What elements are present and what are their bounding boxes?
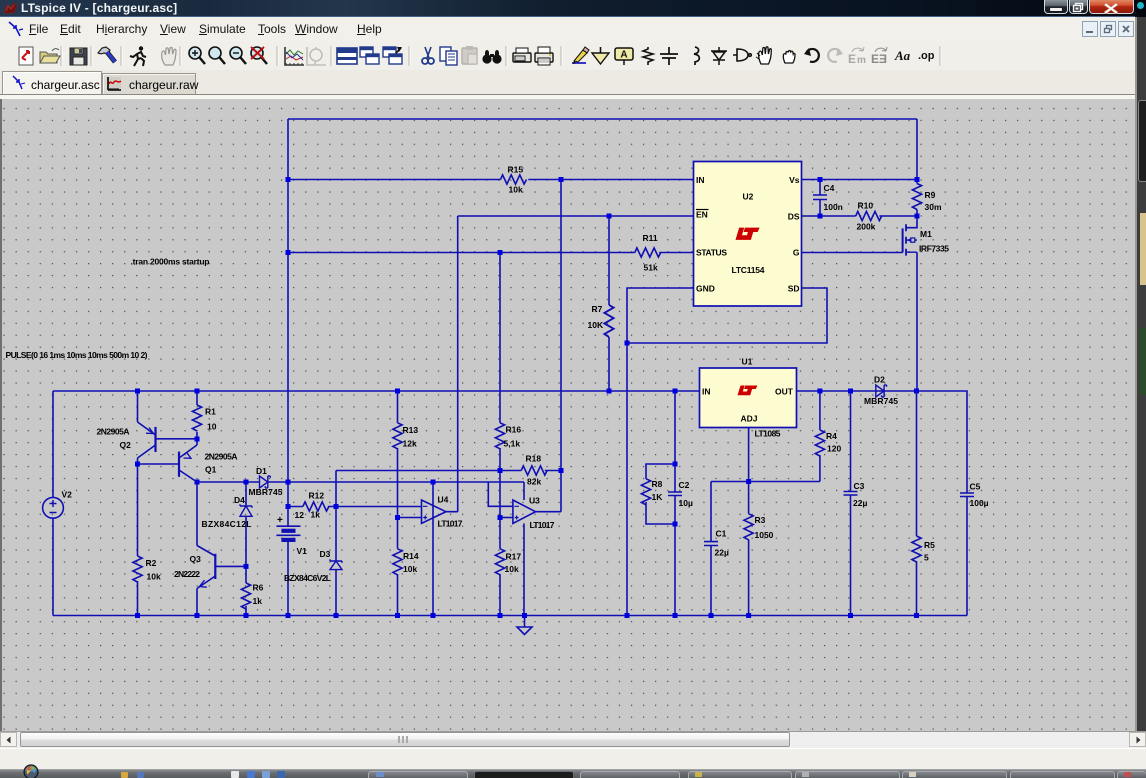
resistor icon xyxy=(643,47,653,65)
junction node EN-R7 xyxy=(607,214,612,219)
zoom extents xyxy=(251,47,267,64)
svg-text:Vs: Vs xyxy=(789,175,800,185)
transistor Q1 pnp xyxy=(178,452,180,477)
svg-text:IN: IN xyxy=(696,175,705,185)
capacitor icon xyxy=(660,47,678,65)
svg-text:E: E xyxy=(848,52,856,66)
wire ground stub xyxy=(524,616,526,627)
junction node rail R2 xyxy=(135,613,140,618)
junction node STATUS left xyxy=(286,250,291,255)
junction node rail R5 xyxy=(914,613,919,618)
junction node Vs-R9 xyxy=(915,177,920,182)
wire x=457.7 vertical U4 output xyxy=(446,216,458,512)
svg-text:LT1017: LT1017 xyxy=(530,520,555,530)
tile horizontal xyxy=(337,48,357,64)
svg-text:C5: C5 xyxy=(970,482,981,492)
junction node C4 bottom xyxy=(818,214,823,219)
svg-text:1k: 1k xyxy=(253,596,263,606)
junction node R18 right xyxy=(559,468,564,473)
svg-text:D1: D1 xyxy=(256,466,267,476)
svg-text:Aa: Aa xyxy=(894,48,911,63)
wire D4 column xyxy=(245,482,247,616)
svg-text:R6: R6 xyxy=(253,583,264,593)
svg-text:5: 5 xyxy=(924,553,929,563)
wire Q3 base row xyxy=(215,565,246,567)
print preview xyxy=(513,48,531,62)
svg-text:10k: 10k xyxy=(505,564,519,574)
label A icon xyxy=(615,48,633,65)
cut xyxy=(422,47,434,64)
resistor R16 xyxy=(495,423,504,449)
junction node rail x675 xyxy=(673,613,678,618)
svg-text:R8: R8 xyxy=(652,479,663,489)
wire R4 column xyxy=(819,391,821,482)
junction node R15 right xyxy=(559,177,564,182)
wire x=609 EN to R7 to mid rail xyxy=(608,216,610,391)
drag fist xyxy=(783,51,795,63)
wire Q2 emitter from mid rail xyxy=(137,391,139,422)
junction node rail R14 xyxy=(395,613,400,618)
junction node rail C1 xyxy=(709,613,714,618)
junction node OUT C3 xyxy=(848,389,853,394)
svg-text:10: 10 xyxy=(207,422,217,432)
text Aa xyxy=(894,48,911,63)
move hand xyxy=(756,47,771,64)
svg-text:R16: R16 xyxy=(506,425,522,435)
capacitor C3 xyxy=(844,492,858,496)
resistor R13 xyxy=(393,423,402,449)
open folder xyxy=(40,49,60,63)
junction node mid rail Q2 xyxy=(135,389,140,394)
junction node Q3 base D4 xyxy=(244,564,249,569)
wire R1 leads xyxy=(196,391,198,439)
capacitor C4 xyxy=(813,195,827,200)
junction node Q2 base R1 xyxy=(195,437,200,442)
wire U4 plus row xyxy=(398,517,422,519)
wire M1 drain xyxy=(906,216,917,228)
junction node R10-M1 drain xyxy=(915,214,920,219)
junction node top-left rail xyxy=(286,177,291,182)
svg-text:2N2905A: 2N2905A xyxy=(97,427,130,437)
svg-text:100n: 100n xyxy=(824,202,843,212)
svg-text:Q2: Q2 xyxy=(120,440,132,450)
menu bar xyxy=(0,17,1135,43)
svg-text:DS: DS xyxy=(788,212,800,222)
wire x=500 column xyxy=(499,253,501,616)
svg-text:R2: R2 xyxy=(146,558,157,568)
resistor R6 xyxy=(241,583,250,609)
wire D1 row y=386 xyxy=(197,482,524,500)
svg-text:ADJ: ADJ xyxy=(741,414,758,424)
wire C3 column xyxy=(850,391,852,616)
junction node C4 top xyxy=(818,177,823,182)
wire x=397.5 column R13 R14 xyxy=(397,391,399,616)
junction node mid rail R1 xyxy=(195,389,200,394)
zener D3 xyxy=(330,559,342,569)
wire R5 column xyxy=(916,391,918,616)
ground symbol xyxy=(517,627,532,635)
zener D4 xyxy=(240,504,252,516)
IC U2 LTC1154 box xyxy=(694,162,802,307)
svg-text:82k: 82k xyxy=(527,477,541,487)
toolbar xyxy=(0,42,1135,71)
svg-text:5,1k: 5,1k xyxy=(504,439,521,449)
svg-text:A: A xyxy=(620,50,627,61)
wire OUT row xyxy=(797,391,968,616)
wire x=675 column xyxy=(674,391,676,616)
wire bottom rail xyxy=(53,615,967,617)
undo xyxy=(804,48,819,62)
svg-text:R9: R9 xyxy=(925,190,936,200)
svg-text:BZX84C12L: BZX84C12L xyxy=(202,519,252,529)
svg-text:C2: C2 xyxy=(679,480,690,490)
wire R18 row y=374.5 xyxy=(336,470,561,472)
svg-text:30m: 30m xyxy=(925,202,942,212)
svg-text:12k: 12k xyxy=(403,439,417,449)
svg-text:R3: R3 xyxy=(755,515,766,525)
wire R8 bracket xyxy=(646,464,675,524)
resistor R12 xyxy=(303,502,329,511)
svg-text:PULSE(0 16 1ms 10ms 10ms 500m: PULSE(0 16 1ms 10ms 10ms 500m 10 2) xyxy=(6,350,148,360)
wire V2 column xyxy=(52,391,54,616)
svg-text:Q3: Q3 xyxy=(190,554,202,564)
svg-text:E: E xyxy=(879,52,887,66)
svg-text:U2: U2 xyxy=(743,192,754,202)
svg-text:E: E xyxy=(871,52,879,66)
wire feedback row y=385.5 xyxy=(711,481,820,483)
svg-text:U3: U3 xyxy=(529,496,540,506)
svg-text:U1: U1 xyxy=(742,357,753,367)
svg-text:MBR745: MBR745 xyxy=(249,487,283,497)
svg-text:BZX84C6V2L: BZX84C6V2L xyxy=(284,573,331,583)
svg-text:R18: R18 xyxy=(526,454,542,464)
svg-text:10k: 10k xyxy=(403,564,417,574)
resistor R10 xyxy=(856,211,882,220)
svg-text:R10: R10 xyxy=(858,201,874,211)
junction node R12 left xyxy=(286,504,291,509)
component gate icon xyxy=(733,49,752,61)
transistor Q2 pnp xyxy=(154,427,156,452)
wire C1 column xyxy=(710,482,712,616)
junction node rail D3 xyxy=(334,613,339,618)
svg-text:10K: 10K xyxy=(588,320,604,330)
mirror Em gray xyxy=(848,47,866,66)
wire U3 Vminus to rail xyxy=(523,523,525,615)
svg-text:R13: R13 xyxy=(403,425,419,435)
svg-text:Q1: Q1 xyxy=(205,465,217,475)
battery V1 xyxy=(276,526,300,535)
junction node rail Q3 xyxy=(195,613,200,618)
svg-text:U4: U4 xyxy=(438,495,449,505)
svg-text:SD: SD xyxy=(788,284,800,294)
wire STATUS row with R11 leads xyxy=(288,252,694,254)
svg-text:LT1017: LT1017 xyxy=(438,519,463,529)
svg-text:12: 12 xyxy=(295,510,305,520)
svg-text:IN: IN xyxy=(702,387,711,397)
junction node rail x627 xyxy=(625,613,630,618)
svg-text:EN: EN xyxy=(696,210,708,220)
junction node D4 top xyxy=(244,480,249,485)
junction node U4 Vplus xyxy=(431,480,436,485)
tile vertical xyxy=(360,47,379,64)
wire branch to U3 minus xyxy=(488,482,513,506)
svg-text:R5: R5 xyxy=(924,540,935,550)
junction node U3 plus xyxy=(498,515,503,520)
run man xyxy=(130,46,146,66)
resistor R14 xyxy=(393,549,402,575)
svg-text:STATUS: STATUS xyxy=(696,248,727,258)
svg-text:R12: R12 xyxy=(309,491,325,501)
wire C4 leads xyxy=(819,180,821,217)
svg-text:1050: 1050 xyxy=(755,530,774,540)
svg-text:10µ: 10µ xyxy=(679,498,693,508)
svg-text:OUT: OUT xyxy=(775,387,794,397)
svg-text:D3: D3 xyxy=(320,549,331,559)
wire x=917 top to R9 xyxy=(916,119,918,216)
wire x=288 battery bottom to rail xyxy=(287,541,289,616)
junction node mid rail R13 xyxy=(395,389,400,394)
resistor R17 xyxy=(495,549,504,575)
junction node Q1 emitter xyxy=(195,480,200,485)
resistor R18 xyxy=(521,466,547,475)
svg-text:R15: R15 xyxy=(508,165,524,175)
halt hand gray xyxy=(162,47,176,65)
svg-text:M1: M1 xyxy=(920,229,932,239)
wire Vs row xyxy=(802,179,918,181)
svg-text:.tran 2000ms startup: .tran 2000ms startup xyxy=(131,257,210,267)
junction node STATUS-R16 xyxy=(498,250,503,255)
wire R12 row xyxy=(288,506,336,508)
svg-text:D4: D4 xyxy=(234,495,245,505)
wire SD loop xyxy=(627,288,827,343)
wire mid rail xyxy=(53,390,700,392)
paste gray xyxy=(462,46,477,64)
wire M1 source down to OUT row xyxy=(916,252,918,391)
grayed plot settings xyxy=(307,47,326,65)
junction node R8 bottom xyxy=(673,522,678,527)
svg-text:V1: V1 xyxy=(297,546,308,556)
wire pencil xyxy=(572,47,589,64)
opamp U3 triangle xyxy=(513,500,536,523)
rotate E3 xyxy=(871,47,887,66)
wire Q1 pins column xyxy=(196,439,198,546)
save floppy xyxy=(70,48,87,65)
svg-text:2N2222: 2N2222 xyxy=(174,569,200,579)
zoom out xyxy=(230,47,246,64)
capacitor C2 xyxy=(668,492,682,496)
svg-text:10k: 10k xyxy=(147,572,161,582)
svg-text:.op: .op xyxy=(918,50,935,62)
resistor R3 xyxy=(744,514,753,540)
zoom in xyxy=(189,47,205,64)
wire Q2 base to R1 bottom xyxy=(156,438,198,440)
tab bar xyxy=(0,70,1135,96)
svg-text:120: 120 xyxy=(827,444,841,454)
resistor R4 xyxy=(815,430,824,456)
svg-text:1K: 1K xyxy=(652,492,664,502)
svg-text:100µ: 100µ xyxy=(970,498,989,508)
junction node R18 left xyxy=(498,468,503,473)
wire EN row xyxy=(458,215,694,217)
junction node rail R17 xyxy=(498,613,503,618)
resistor R7 xyxy=(604,305,613,337)
resistor R1 xyxy=(192,405,201,431)
resistor R8 xyxy=(641,479,650,505)
svg-text:R14: R14 xyxy=(403,551,419,561)
wire ADJ column and R3 xyxy=(748,428,750,616)
diode D2 schottky xyxy=(876,385,887,397)
svg-text:MBR745: MBR745 xyxy=(864,396,898,406)
svg-text:C3: C3 xyxy=(854,481,865,491)
junction node U4 plus xyxy=(395,515,400,520)
IC U1 LT1085 box xyxy=(700,368,797,428)
wire R15 row xyxy=(288,179,694,181)
svg-text:m: m xyxy=(857,55,866,66)
zoom area xyxy=(209,47,225,64)
junction node R8 top xyxy=(673,462,678,467)
wire x=561 vertical xyxy=(560,180,562,512)
svg-text:+: + xyxy=(277,515,283,526)
svg-text:R4: R4 xyxy=(826,431,837,441)
wire Q1 base row y=368 xyxy=(138,463,180,465)
junction node mid rail x675 xyxy=(673,389,678,394)
svg-text:R17: R17 xyxy=(506,552,522,562)
cascade xyxy=(383,47,402,64)
junction node R12 right xyxy=(334,504,339,509)
junction node Q2 collector xyxy=(135,462,140,467)
ground icon xyxy=(592,47,609,64)
task buttons xyxy=(368,771,468,778)
junction node OUT R4 xyxy=(817,389,822,394)
wire x=336 column D3 xyxy=(335,471,337,616)
resistor R9 xyxy=(912,184,921,210)
resistor R11 xyxy=(635,248,661,257)
capacitor C5 xyxy=(960,493,974,497)
junction node rail gnd xyxy=(522,613,527,618)
svg-text:22µ: 22µ xyxy=(715,548,729,558)
.op xyxy=(918,50,935,62)
wire top rail xyxy=(288,118,917,120)
title bar xyxy=(0,0,1146,17)
mosfet M1 pmos xyxy=(902,228,904,252)
svg-text:22µ: 22µ xyxy=(853,498,867,508)
resistor R5 xyxy=(912,536,921,562)
svg-text:LTC1154: LTC1154 xyxy=(732,265,765,275)
svg-text:10k: 10k xyxy=(509,185,523,195)
svg-text:200k: 200k xyxy=(857,222,876,232)
svg-text:C4: C4 xyxy=(824,183,835,193)
new file xyxy=(19,47,33,65)
junction node rail R3 xyxy=(746,613,751,618)
wire left vertical x=288 top to battery xyxy=(287,119,289,526)
copy xyxy=(440,47,457,65)
svg-text:LT1085: LT1085 xyxy=(755,429,781,439)
diode icon xyxy=(711,47,727,65)
svg-text:R7: R7 xyxy=(592,304,603,314)
svg-text:2N2905A: 2N2905A xyxy=(205,452,238,462)
wire x=433 opamp power column xyxy=(432,482,434,616)
status bar xyxy=(0,748,1146,770)
wire GND row and down xyxy=(627,288,694,616)
wire Q2 collector to R2 xyxy=(137,458,139,616)
junction node rail R6 xyxy=(244,613,249,618)
desktop strip right xyxy=(1135,17,1146,769)
junction node rail C3 xyxy=(848,613,853,618)
wire DS row with R10 leads xyxy=(802,215,918,217)
svg-text:G: G xyxy=(793,248,800,258)
transistor Q3 npn xyxy=(214,554,216,579)
junction node GND-SD xyxy=(625,341,630,346)
print xyxy=(535,47,553,65)
svg-text:V2: V2 xyxy=(62,490,73,500)
diode D1 schottky xyxy=(260,476,271,488)
wire U4 minus row xyxy=(336,506,422,508)
junction node mid rail R7 xyxy=(607,389,612,394)
resistor R2 xyxy=(133,556,142,582)
voltage source V2 xyxy=(43,497,64,518)
junction node ADJ R3 xyxy=(746,479,751,484)
quick launch icons xyxy=(121,772,128,778)
taskbar xyxy=(0,769,1146,778)
control panel hammer xyxy=(98,47,115,62)
opamp U4 triangle xyxy=(422,500,446,523)
junction node rail U4 xyxy=(431,613,436,618)
junction node D1 cathode xyxy=(286,480,291,485)
svg-text:R1: R1 xyxy=(205,407,216,417)
wire U3 plus row xyxy=(500,517,513,519)
svg-text:GND: GND xyxy=(696,284,715,294)
redo gray xyxy=(828,48,843,62)
junction node rail V1 xyxy=(286,613,291,618)
EN overline xyxy=(696,209,709,211)
wire U3 output stub xyxy=(536,511,562,513)
wire G row xyxy=(802,252,903,254)
wire Q3 emitter to rail xyxy=(196,589,198,616)
inductor icon xyxy=(694,47,699,65)
capacitor C1 xyxy=(704,542,718,546)
resistor R15 xyxy=(501,175,527,184)
junction node OUT D2-M1 xyxy=(914,389,919,394)
svg-text:51k: 51k xyxy=(644,263,658,273)
start orb xyxy=(13,763,49,778)
horizontal scrollbar xyxy=(0,731,1146,748)
waveform icon xyxy=(285,47,304,65)
svg-text:C1: C1 xyxy=(716,529,727,539)
svg-text:IRF7335: IRF7335 xyxy=(919,244,949,254)
svg-text:1k: 1k xyxy=(311,510,321,520)
find binoculars xyxy=(482,50,501,64)
svg-text:R11: R11 xyxy=(643,233,658,243)
svg-text:D2: D2 xyxy=(874,375,885,385)
